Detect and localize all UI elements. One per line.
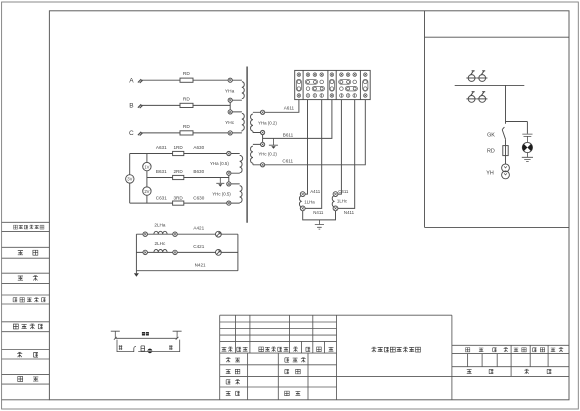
svg-text:C611: C611	[282, 158, 293, 163]
wire A611	[265, 100, 299, 113]
channel bolt mark right	[169, 345, 173, 350]
voltmeter 2V	[143, 187, 151, 195]
wire B611 with junction vertical	[263, 100, 332, 143]
CT 2LHc	[143, 241, 177, 255]
CT 2LHa	[143, 223, 177, 237]
svg-text:N421: N421	[195, 262, 206, 267]
fuse 2RD	[173, 169, 184, 179]
PT primary winding YHc with terminals	[225, 110, 244, 135]
svg-text:B631: B631	[156, 169, 167, 174]
wire A631/A630 line	[130, 145, 227, 153]
fuse RD phase B	[180, 97, 193, 108]
drawing title	[371, 347, 420, 352]
fuse 1RD	[173, 145, 184, 155]
ground on N411 link	[315, 220, 324, 229]
drawout contact lower right	[477, 92, 487, 103]
svg-text:YH: YH	[486, 170, 494, 176]
wire switch to fuse	[505, 139, 507, 145]
svg-text:N411: N411	[344, 210, 355, 215]
PT secondary winding YHa(0.2)	[251, 110, 278, 134]
fuse RD main	[487, 146, 508, 156]
wire C631/C630 line	[130, 195, 227, 203]
wire C611	[265, 100, 366, 165]
plug contact on A421	[216, 231, 222, 237]
title block texts	[222, 347, 334, 396]
wire A411	[305, 100, 321, 195]
terminal column 4	[339, 73, 358, 98]
fuse RD phase C	[180, 124, 193, 135]
wire N421 and shorting link	[136, 234, 238, 271]
node C phase label	[129, 130, 134, 137]
drawout contact upper left	[466, 71, 476, 82]
CT 1LHa secondary	[299, 192, 315, 211]
capacitor divider	[522, 134, 532, 142]
svg-text:YHa (0.2): YHa (0.2)	[258, 120, 277, 125]
svg-text:YHa (0.5): YHa (0.5)	[210, 161, 229, 166]
svg-text:B: B	[129, 103, 133, 110]
svg-text:2V: 2V	[144, 189, 149, 194]
fuse 3RD	[173, 195, 184, 205]
wire bus drop	[505, 85, 507, 123]
node B phase label	[129, 103, 133, 110]
mounting detail label	[142, 332, 149, 336]
mounting detail post right	[173, 331, 182, 338]
svg-text:1LHa: 1LHa	[304, 200, 315, 205]
junction vertical B630	[228, 175, 230, 182]
svg-text:C630: C630	[193, 195, 204, 200]
svg-text:RD: RD	[487, 149, 495, 155]
PT winding YHc(0.5) with terminals	[212, 182, 242, 205]
svg-text:C631: C631	[156, 195, 167, 200]
fuse RD phase A	[180, 71, 193, 82]
drawout contact upper right	[477, 71, 487, 82]
wire C421 line	[136, 244, 238, 253]
right table texts	[466, 348, 564, 374]
svg-text:RD: RD	[183, 124, 190, 130]
wire B junction vertical	[229, 102, 231, 110]
wire B phase entry tick	[138, 104, 143, 108]
plug contact on C421	[216, 250, 222, 256]
indicator lamp	[522, 142, 532, 152]
CT 2LHa left rail	[135, 234, 137, 271]
one-line diagram box	[425, 37, 570, 227]
terminal column 5	[363, 73, 368, 98]
ground on B630	[216, 178, 224, 187]
wire lamp branch	[506, 122, 528, 134]
mounting detail post left	[111, 331, 120, 338]
wire A phase line	[141, 79, 228, 81]
CT 1LHc secondary	[332, 192, 348, 211]
svg-text:A631: A631	[156, 145, 167, 150]
terminal column 3	[329, 73, 334, 98]
wire fuse to PT	[505, 156, 507, 165]
svg-text:RD: RD	[183, 97, 190, 103]
svg-text:YHa: YHa	[225, 89, 235, 95]
svg-text:B611: B611	[283, 133, 294, 138]
voltmeter 1V	[143, 162, 151, 170]
channel nut	[148, 349, 153, 354]
svg-text:1V: 1V	[144, 164, 149, 169]
channel clamp mark	[141, 346, 145, 351]
wire N411 from 1LHa	[305, 100, 324, 216]
svg-text:N411: N411	[313, 210, 324, 215]
PT core	[246, 67, 248, 223]
terminal column 1	[296, 73, 301, 98]
svg-text:A611: A611	[284, 106, 295, 111]
wire C411	[338, 100, 349, 195]
ground at rail bottom	[134, 271, 139, 277]
wire A421 line	[136, 226, 238, 235]
terminal column 2	[305, 73, 324, 98]
svg-text:2LHa: 2LHa	[154, 223, 165, 228]
voltage transformer YH	[486, 164, 509, 179]
svg-text:1RD: 1RD	[173, 145, 183, 150]
wire C phase line	[141, 132, 228, 134]
drawout contact lower left	[466, 92, 476, 103]
wire C phase entry tick	[138, 132, 143, 136]
PT secondary winding YHc(0.2)	[251, 142, 278, 167]
ground below lamp	[522, 153, 533, 162]
wire B phase line	[141, 104, 230, 106]
disconnect switch GK	[487, 127, 505, 139]
voltmeter 1V/2V rail	[146, 154, 148, 204]
svg-text:YHc: YHc	[225, 120, 235, 126]
svg-text:3V: 3V	[127, 177, 132, 182]
svg-text:C: C	[129, 130, 134, 137]
svg-text:C421: C421	[193, 244, 204, 249]
ground on B611	[269, 138, 278, 148]
panel divider	[424, 11, 426, 228]
svg-text:A411: A411	[310, 189, 320, 194]
voltmeter 3V rail	[129, 154, 131, 204]
node A phase label	[129, 77, 134, 84]
PT primary winding YHa with terminals	[225, 78, 244, 102]
svg-text:A421: A421	[193, 226, 204, 231]
busbar	[455, 84, 525, 86]
svg-text:2RD: 2RD	[173, 169, 183, 174]
wire B631/B630 line	[147, 169, 229, 177]
mounting channel	[117, 340, 180, 352]
wire N411 from 1LHc	[338, 100, 355, 216]
svg-text:GK: GK	[487, 133, 495, 139]
test terminal block	[295, 70, 371, 99]
mounting detail dimension line	[114, 337, 179, 340]
voltmeter 3V	[126, 175, 134, 183]
PT winding YHa(0.5) with terminals	[210, 151, 243, 175]
svg-text:A630: A630	[193, 145, 204, 150]
svg-text:YHc (0.2): YHc (0.2)	[258, 152, 277, 157]
channel bolt mark left	[119, 345, 123, 350]
svg-text:RD: RD	[183, 71, 190, 77]
svg-text:YHc (0.5): YHc (0.5)	[212, 192, 231, 197]
left margin field texts	[13, 225, 45, 381]
svg-text:A: A	[129, 77, 134, 84]
wire N411 common link	[303, 211, 336, 220]
svg-text:C411: C411	[338, 189, 349, 194]
svg-text:2LHc: 2LHc	[155, 241, 166, 246]
svg-text:B630: B630	[193, 169, 204, 174]
wire A phase entry tick	[138, 79, 143, 83]
svg-text:1LHc: 1LHc	[337, 199, 348, 204]
svg-text:3RD: 3RD	[173, 195, 183, 200]
